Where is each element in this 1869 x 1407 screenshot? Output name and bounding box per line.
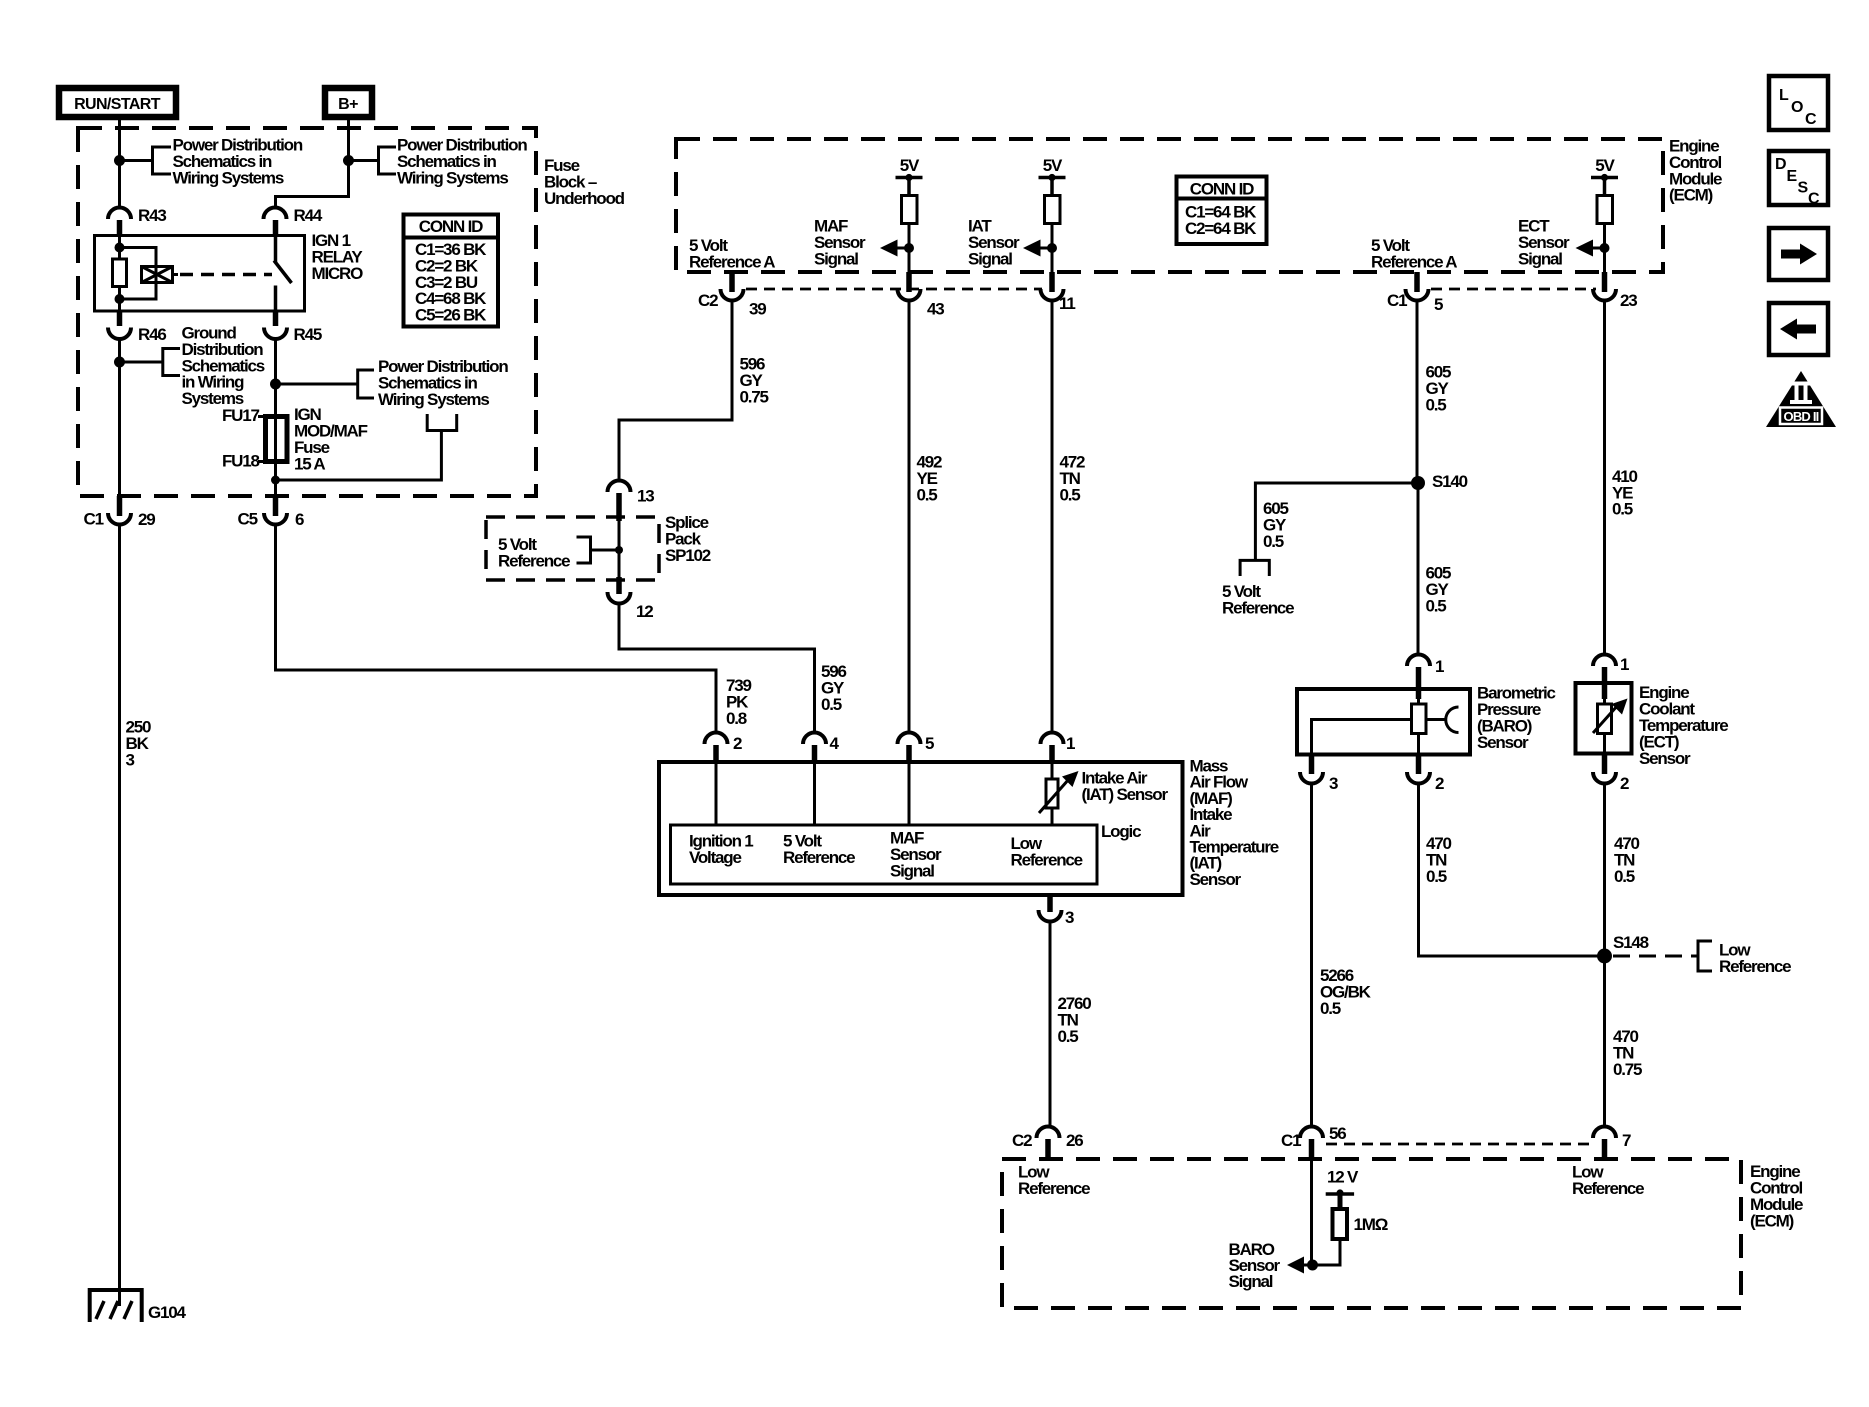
label 605 GY 0.5 top (1426, 363, 1452, 415)
label 5 Volt Reference A left (689, 236, 775, 271)
connector C1 56 (1281, 1124, 1346, 1161)
IAT variable arrow (1039, 771, 1079, 813)
label 472 TN 0.5 (1060, 453, 1086, 505)
wire 472 TN 0.5 IAT signal (1051, 301, 1054, 734)
off-page bracket ground distribution (163, 349, 180, 376)
wire R46 down (118, 339, 121, 496)
svg-text:Sensor: Sensor (1190, 870, 1242, 889)
svg-text:11: 11 (1059, 294, 1075, 313)
svg-text:29: 29 (138, 510, 155, 529)
label 5266 OG/BK 0.5 (1320, 966, 1372, 1018)
connector R45 (264, 311, 322, 344)
wire MAF pin1 internal (1051, 762, 1054, 779)
connector C2 39 (698, 272, 766, 319)
svg-text:0.5: 0.5 (1612, 500, 1633, 519)
svg-text:C2: C2 (1012, 1131, 1032, 1150)
svg-text:MICRO: MICRO (312, 264, 364, 283)
svg-text:(IAT) Sensor: (IAT) Sensor (1082, 785, 1169, 804)
connector C1 29 (84, 496, 156, 529)
power node RUN/START (59, 88, 176, 117)
svg-text:5: 5 (925, 734, 934, 753)
off-page bracket power distribution 3 (358, 370, 374, 398)
MAF logic inner box (671, 825, 1098, 884)
svg-text:43: 43 (927, 300, 944, 319)
svg-text:O: O (1791, 99, 1803, 116)
icon right arrow box (1769, 228, 1828, 280)
label ECT Sensor Signal (1518, 217, 1570, 269)
wire BARO pin2 internal (1417, 734, 1420, 755)
svg-text:D: D (1775, 156, 1786, 173)
power node B+ (325, 88, 372, 117)
svg-text:Reference: Reference (1011, 850, 1083, 869)
node BARO signal junction (1307, 1260, 1318, 1271)
svg-text:23: 23 (1620, 291, 1637, 310)
label 739 PK 0.8 (726, 676, 752, 728)
wire 739 PK 0.8 from C5-6 to MAF pin 2 (276, 525, 717, 734)
label IGN 1 RELAY MICRO (312, 231, 364, 283)
ECM top dashed box (676, 139, 1663, 272)
resistor IAT sensing element (1046, 779, 1058, 808)
wire splice internal (618, 517, 621, 577)
label Splice Pack SP102 (665, 513, 711, 565)
svg-text:Sensor: Sensor (1639, 749, 1691, 768)
svg-text:1: 1 (1435, 657, 1444, 676)
label MAF Sensor Signal pin5 (890, 829, 942, 881)
svg-text:R46: R46 (138, 325, 166, 344)
wire 470 TN 0.5 BARO pin2 to S148 (1419, 784, 1605, 957)
wire 470 TN 0.5 ECT pin2 to S148 (1603, 784, 1606, 957)
node junction power distribution 3 (270, 379, 281, 390)
svg-text:0.5: 0.5 (1320, 999, 1341, 1018)
label Mass Air Flow MAF IAT Sensor (1190, 757, 1279, 889)
svg-text:0.5: 0.5 (1426, 597, 1447, 616)
connector 3 BARO (1300, 755, 1338, 794)
svg-text:Voltage: Voltage (689, 848, 741, 867)
svg-text:S: S (1798, 180, 1809, 197)
label 250 BK 3 (126, 718, 152, 770)
svg-text:13: 13 (637, 487, 654, 506)
BARO pressure port symbol (1426, 707, 1459, 733)
wire MAF signal arrow (880, 240, 909, 257)
connector 1 ECT (1593, 655, 1629, 700)
off-page cap bracket 5 volt reference S140 (1240, 560, 1269, 576)
connector 23 (1593, 272, 1637, 310)
label Low Reference S148 (1719, 941, 1791, 977)
ECT sensor box (1576, 683, 1632, 754)
wire 250 BK 3 (118, 525, 121, 1291)
label Fuse Block Underhood (544, 156, 625, 208)
label 470 TN 0.75 (1613, 1027, 1642, 1079)
connector C5 6 (238, 496, 305, 529)
ECT variable arrow (1593, 699, 1628, 734)
svg-text:1MΩ: 1MΩ (1354, 1215, 1388, 1234)
wire to power distribution bracket (120, 159, 153, 162)
label 605 GY 0.5 lower (1426, 564, 1452, 616)
svg-text:Signal: Signal (968, 249, 1012, 268)
wire MAF pin5 internal (908, 762, 911, 825)
wire B+ down (276, 117, 349, 208)
label Intake Air IAT Sensor (1082, 769, 1169, 804)
svg-text:Underhood: Underhood (544, 189, 625, 208)
off-page bracket low reference S148 (1698, 941, 1712, 971)
label power distribution schematics 3 (378, 357, 508, 409)
label Barometric Pressure BARO Sensor (1477, 684, 1556, 753)
wire to power distribution bracket 3 (276, 383, 358, 386)
wire 1M resistor leg (1313, 1239, 1340, 1265)
wire ECT internal (1603, 683, 1606, 704)
svg-text:0.5: 0.5 (917, 486, 938, 505)
svg-text:56: 56 (1329, 1124, 1346, 1143)
svg-text:E: E (1787, 168, 1798, 185)
node splice S140 (1411, 476, 1425, 490)
svg-text:0.75: 0.75 (740, 387, 769, 406)
svg-text:Reference: Reference (1572, 1179, 1644, 1198)
svg-text:FU17: FU17 (222, 406, 260, 425)
label 605 GY 0.5 branch (1263, 499, 1289, 551)
resistor ECT element (1598, 704, 1612, 734)
svg-text:R43: R43 (138, 206, 166, 225)
svg-text:2: 2 (1620, 774, 1629, 793)
label 596 GY 0.75 (740, 355, 769, 407)
svg-text:2: 2 (733, 734, 742, 753)
node IAT signal junction (1047, 243, 1057, 253)
svg-text:S148: S148 (1613, 933, 1649, 952)
svg-text:OBD II: OBD II (1784, 409, 1819, 424)
svg-text:C5=26 BK: C5=26 BK (415, 306, 487, 325)
MAF sensor outer box (659, 762, 1183, 895)
connector 13 (608, 481, 655, 522)
off-page bracket 5 volt reference splice (577, 537, 591, 563)
power 5V ECT pullup (1591, 156, 1618, 272)
svg-text:R45: R45 (294, 325, 322, 344)
svg-text:Signal: Signal (890, 862, 934, 881)
label 470 TN 0.5 right (1614, 834, 1640, 886)
ground G104 (90, 1290, 187, 1322)
svg-text:0.5: 0.5 (1263, 532, 1284, 551)
svg-text:2: 2 (1435, 774, 1444, 793)
svg-text:(ECM): (ECM) (1750, 1212, 1794, 1231)
svg-text:0.5: 0.5 (1426, 867, 1447, 886)
conn id table ECM (1177, 177, 1267, 245)
svg-text:C: C (1805, 111, 1817, 128)
svg-text:C5: C5 (238, 509, 258, 528)
wire S140 branch to 5 volt reference (1255, 483, 1418, 560)
wire S140 down to BARO pin1 (1417, 483, 1420, 655)
label power distribution schematics 1 (173, 136, 303, 188)
connector 5 MAF (898, 733, 935, 764)
connector pin dashed line C2 (746, 288, 1042, 291)
wire MAF pin4 internal (813, 762, 816, 825)
ECM bottom dashed box (1002, 1159, 1741, 1308)
connector 4 MAF (803, 733, 840, 764)
label Engine Control Module ECM bottom (1750, 1162, 1803, 1231)
wire BARO pin1 internal (1417, 689, 1420, 704)
svg-text:7: 7 (1622, 1131, 1631, 1150)
fuse FU17/FU18 IGN MOD/MAF (222, 406, 287, 471)
svg-text:Signal: Signal (1229, 1272, 1273, 1291)
off-page bracket power distribution 1 (153, 147, 172, 174)
svg-text:0.75: 0.75 (1613, 1060, 1642, 1079)
svg-text:Reference: Reference (1222, 599, 1294, 618)
resistor BARO element (1412, 704, 1427, 734)
icon OBD II triangle (1766, 371, 1836, 427)
label 410 YE 0.5 (1612, 467, 1638, 519)
svg-text:0.5: 0.5 (1060, 486, 1081, 505)
node coil top junction (115, 243, 125, 253)
wire C1-56 internal (1310, 1161, 1313, 1265)
label Engine Coolant Temperature ECT Sensor (1639, 683, 1728, 768)
svg-text:Reference: Reference (783, 848, 855, 867)
wire dashed relay link (173, 273, 179, 276)
power 12V internal (1326, 1168, 1359, 1209)
svg-text:Wiring Systems: Wiring Systems (378, 390, 489, 409)
connector 1 MAF (1041, 733, 1076, 764)
svg-text:C1: C1 (84, 509, 104, 528)
svg-text:0.5: 0.5 (1614, 867, 1635, 886)
svg-text:15 A: 15 A (294, 455, 325, 474)
wire 596 GY 0.75 from C2-39 (619, 301, 732, 482)
resistor relay coil (113, 259, 127, 287)
svg-text:5V: 5V (900, 156, 920, 175)
wire RUN/START down (118, 117, 121, 208)
wire 470 TN 0.75 S148 down (1603, 956, 1606, 1127)
connector pin dashed line C1 bottom (1326, 1143, 1591, 1146)
connector 3 MAF (1039, 895, 1075, 927)
label 5 Volt Reference A right (1371, 236, 1457, 271)
connector C1 5 (1387, 272, 1443, 314)
label Ignition 1 Voltage (689, 832, 753, 868)
label IAT Sensor Signal (968, 217, 1020, 269)
label 5 Volt Reference S140 (1222, 582, 1294, 618)
wire to ground distribution bracket (120, 361, 163, 364)
connector 43 (898, 272, 945, 319)
label MAF Sensor Signal (814, 217, 866, 269)
label 492 YE 0.5 (917, 453, 943, 505)
svg-text:Reference: Reference (1018, 1179, 1090, 1198)
wire 596 GY 0.5 from 12 to MAF pin 4 (619, 604, 815, 734)
connector 12 (608, 577, 654, 621)
fuse block underhood dashed box (78, 128, 536, 496)
node splice S148 (1597, 949, 1612, 964)
wire 5266 OG/BK 0.5 from BARO pin3 (1310, 784, 1313, 1128)
connector R44 (264, 206, 323, 236)
svg-text:C2=64 BK: C2=64 BK (1185, 219, 1257, 238)
relay switch contact (274, 236, 292, 312)
svg-text:Signal: Signal (1518, 249, 1562, 268)
label 5 Volt Reference pin4 (783, 832, 855, 868)
svg-text:RUN/START: RUN/START (74, 96, 161, 113)
icon LOC box (1769, 76, 1828, 130)
wire splice tap to bracket (592, 549, 619, 552)
solenoid crossed-box symbol (142, 267, 173, 283)
svg-text:CONN ID: CONN ID (419, 217, 483, 236)
node ECT signal junction (1600, 243, 1610, 253)
wire relay coil branch (118, 236, 121, 260)
svg-text:26: 26 (1066, 1131, 1083, 1150)
connector 2 ECT (1593, 754, 1629, 794)
wire dashed S148 to low reference (1613, 955, 1698, 958)
wire IAT signal arrow (1023, 240, 1052, 257)
node junction below fuse (271, 476, 280, 485)
wire MAF pin2 internal (715, 762, 718, 825)
label 470 TN 0.5 left (1426, 834, 1452, 886)
off-page bracket power distribution 2 (379, 147, 397, 174)
svg-text:0.5: 0.5 (1058, 1027, 1079, 1046)
wire to power distribution cup bracket (276, 431, 442, 481)
connector C2 26 (1012, 1127, 1083, 1162)
node junction on RUN/START wire (114, 155, 125, 166)
svg-text:C2: C2 (698, 291, 718, 310)
power 5V MAF pullup (896, 156, 923, 272)
icon DESC box (1769, 151, 1828, 208)
connector R46 (108, 311, 166, 344)
svg-text:G104: G104 (148, 1303, 187, 1322)
svg-text:0.5: 0.5 (821, 695, 842, 714)
svg-text:3: 3 (1329, 774, 1338, 793)
label Low Reference ECM left (1018, 1163, 1090, 1199)
BARO sensor box (1297, 689, 1470, 755)
svg-text:12 V: 12 V (1327, 1168, 1359, 1187)
svg-text:C1: C1 (1387, 291, 1407, 310)
splice pack SP102 dashed box (486, 517, 659, 580)
svg-text:1: 1 (1620, 655, 1629, 674)
svg-text:6: 6 (295, 510, 304, 529)
label BARO Sensor Signal (1229, 1240, 1281, 1291)
wire 605 GY 0.5 from C1-5 to S140 (1416, 301, 1419, 484)
label Low Reference pin3 (1011, 834, 1083, 869)
icon left arrow box (1769, 303, 1828, 355)
node MAF signal junction (904, 243, 914, 253)
wire 2760 TN 0.5 (1049, 922, 1052, 1128)
svg-text:Reference: Reference (498, 552, 570, 571)
label Low Reference ECM right (1572, 1163, 1644, 1199)
svg-text:Reference A: Reference A (1371, 252, 1457, 271)
svg-text:Reference: Reference (1719, 957, 1791, 976)
node splice tap (615, 546, 623, 554)
wire 492 YE 0.5 MAF signal (908, 301, 911, 734)
node junction ground distribution (114, 357, 125, 368)
label Engine Control Module ECM top (1669, 137, 1722, 205)
wire BARO signal arrow (1287, 1257, 1313, 1274)
svg-text:5V: 5V (1043, 156, 1063, 175)
svg-text:SP102: SP102 (665, 546, 711, 565)
wire R45 down (274, 339, 277, 417)
relay K: IGN 1 RELAY MICRO box (95, 236, 305, 312)
svg-text:39: 39 (749, 300, 766, 319)
label IGN MOD/MAF Fuse 15 A (294, 405, 368, 474)
label 2760 TN 0.5 (1058, 994, 1092, 1046)
wire fuse bottom (274, 462, 277, 497)
svg-text:Wiring Systems: Wiring Systems (173, 168, 284, 187)
svg-text:Signal: Signal (814, 249, 858, 268)
connector R43 (108, 206, 166, 236)
node junction on B+ wire (343, 155, 354, 166)
svg-text:0.8: 0.8 (726, 709, 747, 728)
connector 1 BARO (1407, 655, 1444, 700)
wire coil bypass loop (120, 248, 157, 300)
wire BARO pin3 internal (1312, 720, 1412, 755)
svg-text:5V: 5V (1595, 156, 1615, 175)
label power distribution schematics 2 (397, 136, 527, 188)
off-page cup bracket power distribution 4 (427, 414, 457, 431)
connector 11 (1041, 272, 1076, 313)
connector 2 BARO (1407, 755, 1444, 794)
resistor 1M ohm (1333, 1209, 1388, 1239)
svg-text:12: 12 (636, 602, 653, 621)
wire to power distribution bracket 2 (349, 159, 379, 162)
svg-text:L: L (1779, 87, 1789, 104)
svg-text:(ECM): (ECM) (1669, 186, 1713, 205)
svg-text:B+: B+ (338, 96, 358, 113)
svg-text:Logic: Logic (1101, 822, 1141, 841)
svg-text:0.5: 0.5 (1426, 396, 1447, 415)
label 596 GY 0.5 (821, 662, 847, 714)
svg-text:1: 1 (1066, 734, 1075, 753)
svg-text:FU18: FU18 (222, 452, 260, 471)
wire 410 YE 0.5 from 23 to ECT (1603, 301, 1606, 656)
svg-text:3: 3 (126, 750, 135, 769)
connector 7 (1593, 1127, 1631, 1162)
svg-text:C1: C1 (1281, 1131, 1301, 1150)
wire ECT signal arrow (1576, 240, 1605, 257)
svg-text:Reference A: Reference A (689, 252, 775, 271)
svg-text:S140: S140 (1432, 472, 1468, 491)
node coil bottom junction (115, 294, 125, 304)
label 5 Volt Reference splice (498, 535, 570, 570)
conn id table fuse block (404, 215, 499, 327)
svg-text:3: 3 (1065, 908, 1074, 927)
svg-text:5: 5 (1434, 295, 1443, 314)
connector pin dashed line C1 (1431, 288, 1596, 291)
connector 2 MAF (705, 733, 743, 764)
svg-text:Sensor: Sensor (1477, 733, 1529, 752)
svg-text:R44: R44 (294, 206, 323, 225)
svg-text:C: C (1808, 191, 1820, 208)
label ground distribution schematics (182, 324, 265, 409)
power 5V IAT pullup (1039, 156, 1066, 272)
svg-text:Wiring Systems: Wiring Systems (397, 168, 508, 187)
svg-text:CONN ID: CONN ID (1190, 180, 1254, 199)
